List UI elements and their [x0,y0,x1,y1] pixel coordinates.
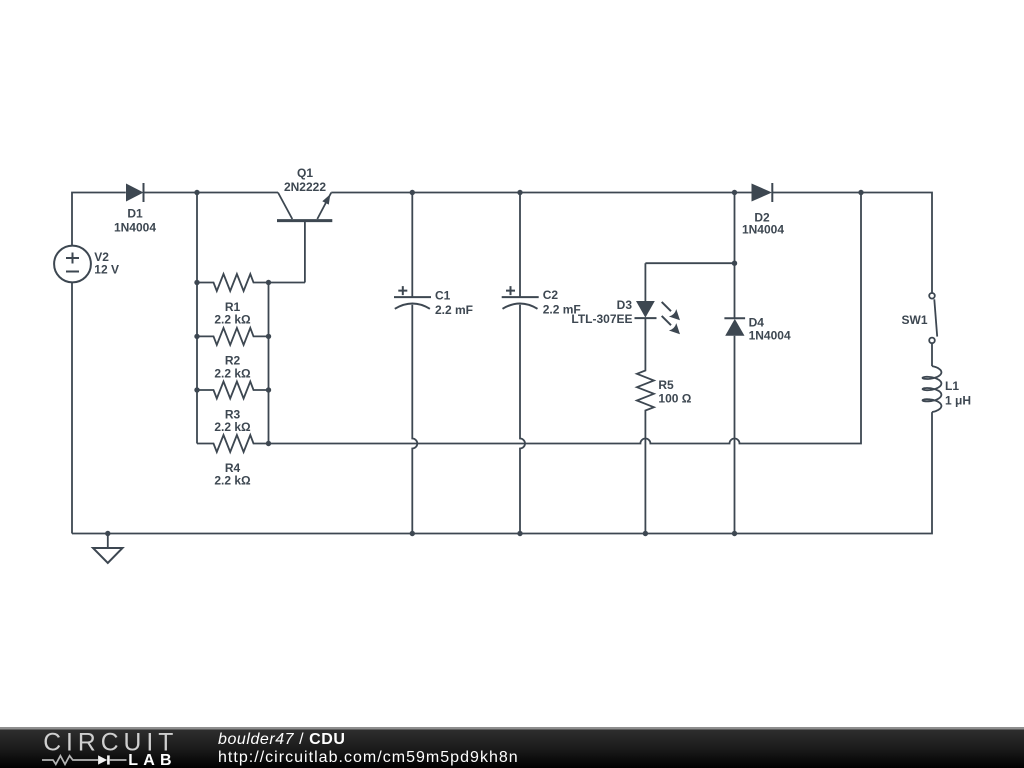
svg-text:2.2 mF: 2.2 mF [435,303,473,317]
schematic url [218,749,519,767]
junction dot bottom rail at D4 [732,531,737,536]
wire top rail D1 cathode to Q1 collector [144,192,279,194]
svg-text:C1: C1 [435,288,451,302]
diode D1 [126,183,144,202]
CircuitLab logo [40,729,220,768]
svg-text:SW1: SW1 [901,313,927,327]
svg-text:12 V: 12 V [94,262,119,276]
svg-text:D3: D3 [617,298,633,312]
resistor R1 [197,274,269,291]
svg-text:1 μH: 1 μH [945,393,971,407]
ground symbol [93,534,123,564]
transistor Q1 [277,193,332,283]
resistor R5 [637,369,654,534]
wire D4 branch upper [734,193,736,319]
svg-text:LTL-307EE: LTL-307EE [571,312,632,326]
svg-text:D4: D4 [749,316,765,330]
junction dot R4 right [266,441,271,446]
junction dot R2 right [266,334,271,339]
svg-text:Q1: Q1 [297,166,313,180]
junction dot R1 left [194,280,199,285]
svg-text:LAB: LAB [128,752,176,768]
diode D2 [752,183,773,202]
svg-text:2.2 kΩ: 2.2 kΩ [214,474,251,488]
svg-text:2.2 kΩ: 2.2 kΩ [214,420,251,434]
author / title text [218,731,345,749]
junction dot top rail at D4 branch [732,190,737,195]
wire V2 minus terminal down to bottom rail [71,283,73,534]
wire top rail Q1 emitter to D2 anode [331,192,751,194]
svg-text:2.2 kΩ: 2.2 kΩ [214,366,251,380]
junction dot R1 right [266,280,271,285]
junction dot top rail at right column [858,190,863,195]
wire D3 branch top from LED column to D4 column [645,262,734,264]
resistor R2 [197,328,269,345]
voltage source V2 [54,246,91,283]
junction dot top rail at C1 [410,190,415,195]
junction dot R3 left [194,387,199,392]
wire inductor to bottom rail [72,412,932,533]
wire resistor bank right rail [268,283,270,444]
junction dot R2 left [194,334,199,339]
svg-text:C2: C2 [543,288,559,302]
capacitor C1 [394,193,431,534]
junction dot D3 top tee on D4 branch [732,261,737,266]
svg-text:D1: D1 [127,207,143,221]
capacitor C2 [502,193,539,534]
svg-text:L1: L1 [945,379,959,393]
wire mid rail from R4 right to junction column with hops over D3 and D4 branches [269,193,862,444]
svg-text:R5: R5 [658,378,674,392]
wire resistor bank left rail [196,193,198,444]
wire top rail from V2 plus terminal to D1 anode [72,193,126,247]
LED D3 [635,263,681,369]
resistor R3 [197,382,269,399]
junction dot bottom rail at R5 [643,531,648,536]
inductor L1 [923,366,942,412]
switch SW1 [929,293,937,343]
svg-text:1N4004: 1N4004 [749,329,791,343]
resistor R4 [197,435,269,452]
junction dot top rail at resistor bank [194,190,199,195]
svg-text:1N4004: 1N4004 [742,222,784,236]
svg-text:100 Ω: 100 Ω [658,392,691,406]
junction dot top rail at C2 [517,190,522,195]
svg-text:2.2 kΩ: 2.2 kΩ [214,313,251,327]
svg-text:1N4004: 1N4004 [114,220,156,234]
junction dot ground tee [105,531,110,536]
junction dot bottom rail at C2 [517,531,522,536]
junction dot R3 right [266,387,271,392]
footer bar [0,727,1024,768]
junction dot bottom rail at C1 [410,531,415,536]
wire switch to inductor [931,343,933,366]
svg-text:2N2222: 2N2222 [284,180,326,194]
wire base of Q1 to resistor bank right rail [269,282,306,284]
wire top rail D2 cathode to switch column [772,193,932,294]
diode D4 [724,318,745,533]
